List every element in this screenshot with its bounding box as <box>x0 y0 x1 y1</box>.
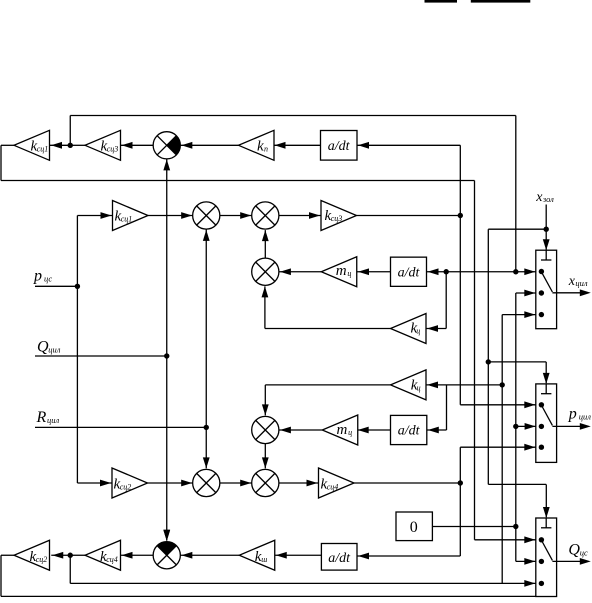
svg-text:сц2: сц2 <box>36 555 48 564</box>
svg-text:ц: ц <box>348 428 352 437</box>
svg-text:a/dt: a/dt <box>398 266 421 281</box>
svg-text:m: m <box>336 263 347 279</box>
svg-text:a/dt: a/dt <box>328 139 351 154</box>
svg-text:ш: ш <box>261 555 267 564</box>
svg-text:a/dt: a/dt <box>398 424 421 439</box>
svg-text:R: R <box>36 409 47 426</box>
svg-text:ц: ц <box>416 326 420 335</box>
svg-text:цил: цил <box>579 412 592 422</box>
svg-text:n: n <box>264 145 268 154</box>
svg-text:цил: цил <box>47 415 60 425</box>
svg-text:ц: ц <box>347 269 351 278</box>
svg-text:p: p <box>33 268 42 285</box>
svg-text:сц2: сц2 <box>120 483 132 492</box>
svg-text:сц1: сц1 <box>121 215 133 224</box>
svg-text:сц1: сц1 <box>37 145 49 154</box>
svg-text:цс: цс <box>580 548 588 558</box>
svg-text:сц3: сц3 <box>331 214 343 223</box>
svg-text:цил: цил <box>575 278 588 288</box>
svg-text:a/dt: a/dt <box>328 551 351 566</box>
svg-text:k: k <box>257 139 264 155</box>
svg-text:сц3: сц3 <box>107 145 119 154</box>
svg-text:сц4: сц4 <box>327 483 339 492</box>
svg-text:ц: ц <box>417 383 421 392</box>
svg-text:цс: цс <box>44 274 52 284</box>
svg-text:0: 0 <box>410 519 418 536</box>
svg-text:Q: Q <box>568 542 580 559</box>
svg-text:p: p <box>568 406 577 423</box>
svg-text:Q: Q <box>37 339 49 356</box>
svg-text:m: m <box>337 422 348 438</box>
svg-text:сц4: сц4 <box>106 555 118 564</box>
svg-text:цил: цил <box>48 345 61 355</box>
svg-text:зол: зол <box>542 194 554 204</box>
